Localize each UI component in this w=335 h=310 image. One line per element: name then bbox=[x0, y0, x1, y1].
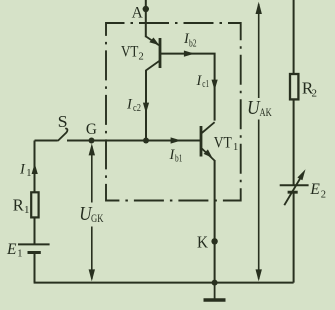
node G dot bbox=[89, 138, 95, 144]
label UGK (masked) bbox=[78, 203, 105, 227]
current arrow Ic1 bbox=[212, 80, 218, 91]
svg-text:b1: b1 bbox=[175, 154, 182, 165]
svg-text:R: R bbox=[13, 195, 24, 214]
transistor VT1 (NPN) bbox=[201, 122, 215, 160]
transistor VT2 (PNP) bbox=[146, 36, 160, 70]
current arrow Ib1 bbox=[171, 137, 182, 143]
svg-text:GK: GK bbox=[91, 213, 104, 225]
svg-text:b2: b2 bbox=[189, 39, 197, 50]
VT1 emitter arrowhead (outward: NPN) bbox=[204, 149, 213, 158]
svg-text:2: 2 bbox=[321, 189, 326, 200]
wire R2 to E2 bbox=[293, 99, 295, 184]
svg-text:2: 2 bbox=[312, 88, 318, 100]
svg-text:c2: c2 bbox=[133, 103, 141, 114]
svg-text:E: E bbox=[6, 241, 17, 258]
label UAK (masked) bbox=[246, 98, 274, 120]
svg-text:1: 1 bbox=[17, 249, 22, 260]
VT2 emitter arrowhead (into base: PNP) bbox=[149, 38, 159, 46]
svg-text:A: A bbox=[132, 4, 144, 21]
wire R1 to E1 bbox=[34, 217, 36, 243]
voltage arrow UAK (double headed) bbox=[256, 2, 262, 282]
wire E2 to bottom bbox=[293, 193, 295, 283]
node A dot bbox=[143, 6, 149, 12]
battery E1 bbox=[18, 244, 50, 252]
wire anode lead bbox=[145, 0, 147, 37]
voltage arrow UGK (double headed) bbox=[89, 143, 95, 281]
svg-text:AK: AK bbox=[260, 107, 273, 119]
wire VT1 emitter down to bottom bbox=[214, 160, 216, 283]
wire VT2 base to Ic1 corner bbox=[161, 54, 215, 121]
junction dot gate/VT2-collector bbox=[143, 138, 149, 144]
wire bottom rail bbox=[34, 282, 294, 284]
svg-text:S: S bbox=[58, 112, 68, 131]
svg-text:VT: VT bbox=[214, 134, 232, 151]
wire E1 to bottom bbox=[34, 253, 36, 283]
svg-text:c1: c1 bbox=[202, 79, 209, 90]
resistor R2 bbox=[290, 74, 298, 99]
svg-text:K: K bbox=[197, 233, 209, 252]
wire right branch top bbox=[293, 0, 295, 74]
switch S lever bbox=[58, 129, 68, 141]
current arrow Ic2 bbox=[143, 103, 149, 114]
ground bbox=[214, 283, 216, 300]
svg-text:1: 1 bbox=[24, 204, 30, 216]
svg-text:1: 1 bbox=[26, 168, 31, 179]
battery E2 (adjustable) bbox=[280, 185, 309, 192]
E2 adjust arrow bbox=[284, 175, 302, 206]
wire gate line right segment bbox=[67, 140, 200, 142]
svg-text:VT: VT bbox=[121, 44, 139, 61]
svg-text:E: E bbox=[309, 181, 320, 198]
current arrow I1 bbox=[32, 163, 38, 174]
wire gate line left segment bbox=[35, 140, 58, 142]
junction dot bottom/ground bbox=[212, 280, 218, 286]
resistor R1 bbox=[31, 192, 38, 217]
wire left branch vertical bbox=[34, 141, 36, 193]
current arrow Ib2 bbox=[184, 51, 195, 57]
node K dot bbox=[211, 238, 217, 244]
svg-text:2: 2 bbox=[139, 51, 144, 62]
svg-text:G: G bbox=[86, 121, 97, 138]
dash-dot enclosure box bbox=[106, 23, 241, 201]
svg-text:1: 1 bbox=[233, 142, 238, 153]
wire VT2 collector down to gate line bbox=[145, 70, 147, 141]
